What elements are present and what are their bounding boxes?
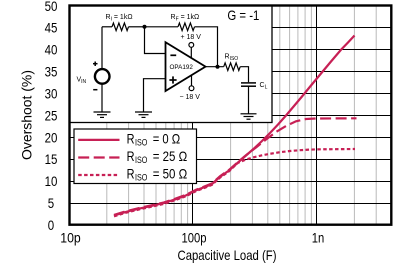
resistor RISO [224, 63, 241, 71]
VIN minus sign [93, 89, 97, 91]
y-axis tick labels [45, 0, 58, 233]
svg-text:+ 18 V: + 18 V [181, 34, 202, 41]
svg-text:Overshoot (%): Overshoot (%) [20, 70, 35, 160]
wire: positive supply stub [190, 47, 192, 58]
resistor RI [112, 23, 129, 31]
resistor RF [178, 23, 195, 31]
svg-text:100p: 100p [182, 229, 207, 245]
svg-text:30: 30 [45, 86, 58, 102]
svg-text:= 50 Ω: = 50 Ω [153, 166, 188, 182]
wire: VIN top [101, 27, 103, 69]
curve RISO = 0 ohm (solid) [114, 36, 355, 216]
wire: node A to RF [145, 26, 179, 28]
negative supply terminal circle [189, 86, 194, 91]
svg-text:OPA192: OPA192 [170, 64, 194, 71]
VIN plus sign [93, 62, 98, 67]
curve RISO = 25 ohm (long dash) [114, 118, 357, 215]
plot frame [70, 6, 392, 225]
legend sample solid [78, 139, 119, 141]
svg-text:Capacitive Load (F): Capacitive Load (F) [178, 248, 277, 263]
op-amp inverting pin mark [170, 54, 176, 56]
major horizontal gridlines (black, every 5%) [70, 28, 392, 204]
wire: op-amp output [206, 66, 224, 68]
svg-text:50: 50 [45, 0, 58, 14]
curve RISO = 50 ohm (fine dash) [114, 149, 355, 216]
svg-text:1n: 1n [312, 229, 325, 245]
svg-text:= 0 Ω: = 0 Ω [153, 131, 181, 147]
svg-text:5: 5 [48, 195, 55, 211]
wire: CL to ground [248, 86, 250, 114]
svg-text:45: 45 [45, 20, 58, 36]
svg-text:35: 35 [45, 64, 58, 80]
output node junction dot [216, 65, 220, 69]
op-amp U1 triangle [166, 42, 206, 91]
svg-text:= 25 Ω: = 25 Ω [153, 148, 188, 164]
svg-text:25: 25 [45, 107, 58, 123]
decade gridlines (black) [193, 6, 317, 225]
svg-text:15: 15 [45, 151, 58, 167]
ground under VIN [94, 112, 111, 117]
wire: node A down to inverting input [145, 27, 166, 54]
svg-text:20: 20 [45, 129, 58, 145]
svg-text:R: R [127, 148, 135, 164]
svg-text:ISO: ISO [135, 173, 147, 183]
svg-text:10: 10 [45, 173, 58, 189]
svg-text:G = -1: G = -1 [227, 7, 259, 23]
wire: negative supply stub [191, 75, 193, 86]
ground at non-inverting input [135, 112, 152, 117]
legend sample long dash [78, 156, 119, 158]
svg-text:0: 0 [48, 217, 55, 233]
legend label RISO = 50 [127, 166, 188, 183]
capacitor CL [241, 83, 256, 86]
legend label RISO = 0 [127, 131, 181, 148]
svg-text:ISO: ISO [135, 155, 147, 165]
inset schematic box [70, 6, 273, 123]
legend box [74, 129, 197, 184]
node A junction dot [143, 25, 147, 29]
wire: RISO to CL [240, 67, 248, 83]
svg-text:ISO: ISO [135, 138, 147, 148]
minor log gridlines (gray) [107, 6, 376, 225]
source VIN circle [95, 69, 110, 84]
wire: top rail VIN to RI [102, 26, 112, 28]
svg-text:R: R [127, 131, 135, 147]
legend sample fine dash [78, 174, 119, 176]
op-amp non-inverting pin mark [169, 76, 176, 83]
positive supply terminal circle [189, 43, 194, 48]
wire: RF to feedback corner [195, 27, 218, 67]
svg-text:10p: 10p [60, 229, 81, 245]
wire: VIN bottom to ground [101, 84, 103, 112]
ground under CL [241, 114, 257, 119]
svg-text:− 18 V: − 18 V [180, 94, 201, 101]
svg-text:R: R [127, 166, 135, 182]
legend label RISO = 25 [127, 148, 188, 165]
wire: non-inverting input to ground branch [144, 79, 166, 112]
x-axis tick labels [60, 229, 324, 245]
svg-text:40: 40 [45, 42, 58, 58]
wire: RI to node A [129, 26, 145, 28]
